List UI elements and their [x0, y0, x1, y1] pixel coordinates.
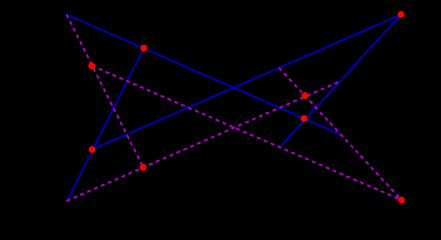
- wire magenta dashed M3 from point on B4 through D to H: [279, 68, 402, 200]
- node F: [89, 146, 96, 153]
- node E: [301, 115, 308, 122]
- node C: [398, 11, 405, 18]
- wire magenta dashed M4 from P2 through G and D to point on B2: [67, 82, 340, 202]
- node A: [140, 45, 147, 52]
- wire blue line B4 from F to C: [92, 15, 401, 150]
- node B: [88, 62, 95, 69]
- node G: [140, 164, 147, 171]
- wire magenta dashed M2 from B to H: [92, 66, 402, 200]
- wire blue line B1 from P1 through A and E: [67, 15, 340, 135]
- node H: [398, 197, 405, 204]
- wire magenta dashed M1 from P1 through B to G: [67, 15, 144, 168]
- node D: [302, 92, 309, 99]
- wire blue line B3 from P2 through F to A: [67, 48, 144, 202]
- wire blue line B2 from C through E: [279, 15, 401, 149]
